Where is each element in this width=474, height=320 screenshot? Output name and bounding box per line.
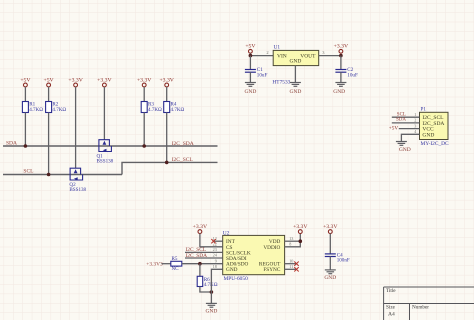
wire SCL to pin1 [392, 116, 420, 118]
svg-text:4.7KΩ: 4.7KΩ [52, 107, 66, 113]
svg-text:+3.3V: +3.3V [323, 224, 338, 230]
capacitor C1 [245, 70, 256, 73]
wire +3.3V to R3 [143, 87, 145, 102]
wire U1 GND pin [294, 66, 296, 83]
svg-text:4.7KΩ: 4.7KΩ [148, 107, 162, 113]
wire U2 GND pin [211, 269, 222, 303]
junction R6/GND [210, 290, 214, 294]
svg-text:+5V: +5V [245, 44, 256, 50]
svg-text:Title: Title [386, 288, 396, 294]
svg-text:Size: Size [386, 304, 396, 310]
power +3.3V (CS) [198, 230, 202, 234]
svg-text:GND: GND [333, 89, 345, 95]
power +5V (U1 input) [249, 49, 253, 53]
wire +3.3V to Q1 gate [103, 87, 105, 140]
svg-text:SDA: SDA [6, 140, 17, 146]
svg-text:MY-I2C_DC: MY-I2C_DC [421, 141, 450, 147]
svg-text:BSS138: BSS138 [97, 158, 114, 164]
wire C1 top [249, 56, 251, 70]
no-connect X on INT [211, 239, 215, 243]
wire INT stub [214, 240, 223, 242]
wire I2C_SCL to SCL/SCLK [185, 251, 223, 253]
svg-text:GND: GND [289, 58, 301, 64]
op-amp U1 (regulator HT7533) [273, 50, 319, 65]
svg-text:U1: U1 [274, 45, 281, 51]
svg-text:I2C_SDA: I2C_SDA [186, 253, 208, 259]
wire +3.3V to CS [200, 234, 223, 247]
svg-text:18: 18 [213, 264, 217, 269]
power +3.3V (col 4) [103, 83, 107, 87]
svg-text:VDDIO: VDDIO [263, 245, 280, 251]
svg-text:BSS138: BSS138 [69, 187, 86, 193]
wire +5V down [249, 53, 251, 55]
no-connect X on REGOUT [294, 262, 298, 266]
junction VDD [299, 239, 303, 243]
wire R6 bottom [200, 287, 212, 293]
svg-text:+3.3V: +3.3V [68, 77, 83, 83]
resistor R3 [141, 102, 147, 113]
wire junction to R6 [199, 264, 201, 277]
svg-text:U2: U2 [223, 231, 230, 237]
junction R1/SDA [24, 144, 28, 148]
op-amp U2 (MPU-6050) [223, 235, 285, 274]
wire C2 top [340, 56, 342, 70]
ground P1 [396, 142, 407, 146]
svg-text:10uF: 10uF [257, 72, 268, 78]
wire R4 to I2C_SCL [166, 113, 168, 163]
wire R1 to SDA [24, 113, 26, 147]
svg-text:+3.3V: +3.3V [137, 77, 152, 83]
svg-text:GND: GND [289, 89, 301, 95]
svg-text:FSYNC: FSYNC [263, 267, 281, 273]
wire R5 to AD0 [182, 263, 223, 265]
svg-text:VOUT: VOUT [300, 54, 316, 60]
svg-text:VIN: VIN [277, 54, 287, 60]
junction R4/I2C_SCL [165, 161, 169, 165]
wire REGOUT stub [285, 263, 297, 265]
ground U1 [290, 83, 301, 87]
junction R2/SCL [47, 173, 51, 177]
svg-text:+5V: +5V [20, 77, 31, 83]
wire R2 to SCL [48, 113, 50, 175]
wire VDD stub [285, 240, 301, 242]
svg-text:GND: GND [399, 147, 411, 153]
svg-text:9: 9 [215, 258, 217, 263]
svg-text:+5V: +5V [389, 125, 399, 131]
svg-text:2: 2 [266, 50, 268, 55]
transistor Q2 [70, 168, 83, 180]
svg-text:1: 1 [414, 112, 416, 117]
wire C1 bottom [249, 72, 251, 82]
svg-text:GND: GND [226, 267, 238, 273]
svg-text:2: 2 [414, 118, 416, 123]
wire C4 top [329, 234, 331, 254]
power +3.3V (col 6) [165, 83, 169, 87]
wire SDA bus [3, 145, 218, 147]
wire +5V to pin3 [399, 128, 420, 130]
wire to VIN pin 2 [250, 55, 273, 57]
wire C4 bottom [329, 257, 331, 270]
svg-text:13: 13 [289, 236, 293, 241]
svg-text:NC: NC [172, 266, 180, 272]
power +5V (col 2) [47, 83, 51, 87]
power +3.3V (col 5) [142, 83, 146, 87]
power +3.3V (U1 output) [339, 49, 343, 53]
svg-text:+3.3V: +3.3V [293, 224, 308, 230]
svg-text:GND: GND [244, 89, 256, 95]
svg-text:GND: GND [205, 309, 217, 315]
svg-text:23: 23 [213, 247, 217, 252]
power +3.3V (col 3) [74, 83, 78, 87]
junction AD0/R6 [198, 262, 202, 266]
svg-text:10uF: 10uF [347, 72, 358, 78]
svg-text:4.7KΩ: 4.7KΩ [171, 107, 185, 113]
svg-text:A4: A4 [388, 312, 395, 318]
svg-text:10: 10 [289, 258, 293, 263]
svg-text:SDA: SDA [396, 118, 406, 123]
wire +3.3V to R4 [166, 87, 168, 102]
svg-text:+3.3V: +3.3V [193, 224, 208, 230]
wire VDDIO stub [285, 234, 301, 247]
wire VOUT pin 3 [319, 55, 341, 57]
svg-text:11: 11 [289, 264, 293, 269]
svg-text:Number: Number [412, 304, 429, 310]
svg-text:GND: GND [422, 132, 434, 138]
svg-text:+3.3V: +3.3V [97, 77, 112, 83]
svg-text:R5: R5 [172, 256, 178, 262]
svg-text:+3.3V3: +3.3V3 [146, 262, 163, 268]
svg-text:HT7533: HT7533 [272, 80, 290, 86]
ground C2 [335, 83, 346, 87]
no-connect X on FSYNC [294, 267, 298, 271]
svg-text:MPU-6050: MPU-6050 [224, 276, 249, 282]
wire to R5 [162, 263, 171, 265]
ground U2 [206, 303, 217, 307]
svg-text:GND: GND [324, 275, 336, 281]
connector P1 [420, 112, 449, 139]
svg-text:P1: P1 [421, 106, 427, 112]
wire SCL bus left [3, 174, 122, 176]
svg-text:8: 8 [289, 242, 291, 247]
svg-text:3: 3 [414, 123, 416, 128]
svg-text:+3.3V: +3.3V [159, 77, 174, 83]
resistor R2 [46, 102, 52, 113]
junction R3/I2C_SDA [142, 144, 146, 148]
power +5V (col 1) [24, 83, 28, 87]
svg-text:SCL: SCL [23, 168, 34, 174]
title block frame [384, 287, 474, 320]
transistor Q1 [99, 140, 112, 152]
resistor R4 [164, 102, 170, 113]
wire SDA to pin2 [392, 122, 420, 124]
svg-text:+5V: +5V [44, 77, 55, 83]
svg-text:I2C_SDA: I2C_SDA [172, 141, 194, 147]
junction C2 node [339, 54, 343, 58]
wire FSYNC stub [285, 268, 297, 270]
power +3.3V (C4) [328, 230, 332, 234]
wire R3 to I2C_SDA [143, 113, 145, 147]
svg-text:100nF: 100nF [337, 257, 350, 263]
wire +3.3V to Q2 gate [75, 87, 77, 168]
wire +5V to R1 [24, 87, 26, 102]
ground C4 [325, 270, 336, 274]
resistor R5 [171, 261, 182, 266]
wire GND pin4 [401, 134, 419, 141]
power +3.3V (VDD) [298, 230, 302, 234]
svg-text:+3.3V: +3.3V [334, 44, 349, 50]
wire C2 bottom [340, 72, 342, 82]
ground C1 [245, 83, 256, 87]
svg-text:I2C_SCL: I2C_SCL [172, 157, 194, 163]
wire SCL step up [122, 162, 218, 174]
junction C1 node [249, 54, 253, 58]
resistor R6 [197, 276, 203, 286]
resistor R1 [22, 102, 28, 113]
wire +5V to R2 [48, 87, 50, 102]
svg-text:4.7KΩ: 4.7KΩ [29, 107, 43, 113]
svg-text:4.7KΩ: 4.7KΩ [204, 282, 218, 288]
wire I2C_SDA to SDA/SDI [185, 257, 223, 259]
capacitor C4 [325, 254, 336, 257]
capacitor C2 [335, 70, 346, 73]
